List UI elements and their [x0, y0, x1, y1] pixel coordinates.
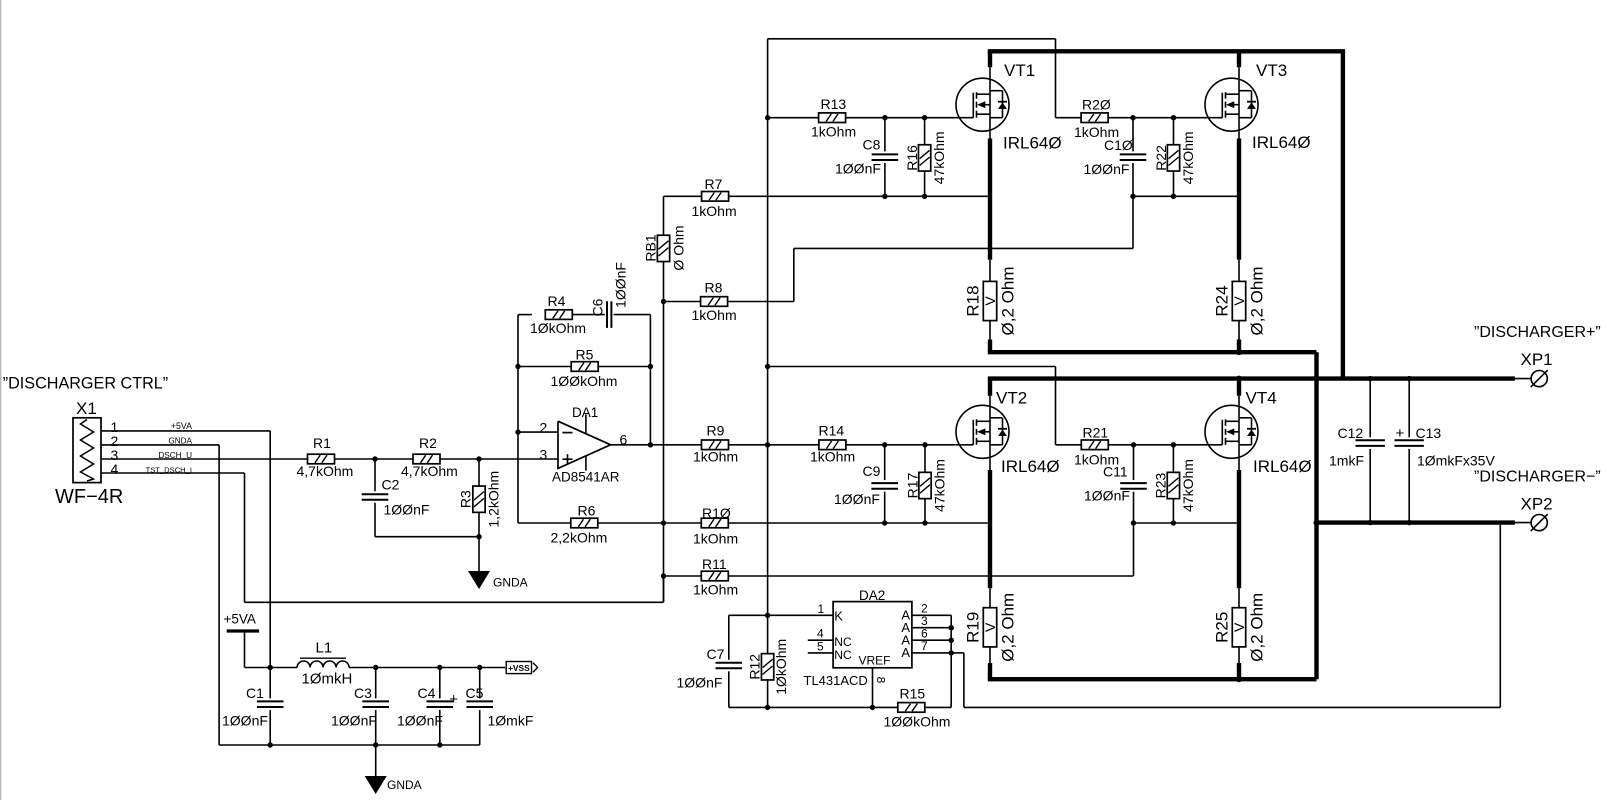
svg-text:2: 2	[540, 420, 548, 436]
svg-text:Ø,2 Ohm: Ø,2 Ohm	[999, 593, 1018, 662]
svg-text:1ØmkH: 1ØmkH	[302, 671, 353, 688]
svg-text:R3: R3	[458, 490, 474, 508]
svg-text:R25: R25	[1213, 612, 1232, 643]
svg-text:VT3: VT3	[1256, 61, 1287, 80]
svg-text:C2: C2	[382, 477, 400, 493]
svg-text:C8: C8	[863, 137, 881, 153]
svg-text:3: 3	[540, 447, 548, 463]
svg-text:R18: R18	[964, 285, 983, 316]
svg-text:R22: R22	[1153, 145, 1169, 171]
svg-text:1ØmkFx35V: 1ØmkFx35V	[1417, 453, 1495, 469]
svg-text:1ØØnF: 1ØØnF	[835, 161, 881, 177]
svg-text:R2Ø: R2Ø	[1082, 97, 1111, 113]
svg-text:XP2: XP2	[1521, 495, 1553, 514]
svg-text:R15: R15	[900, 686, 926, 702]
svg-text:R24: R24	[1213, 285, 1232, 316]
svg-text:1: 1	[818, 602, 825, 616]
svg-text:1kOhm: 1kOhm	[693, 449, 738, 465]
svg-text:4: 4	[111, 461, 119, 477]
svg-text:1kOhm: 1kOhm	[811, 124, 856, 140]
svg-text:1ØkOhm: 1ØkOhm	[773, 639, 789, 695]
svg-text:C5: C5	[466, 685, 484, 701]
svg-text:7: 7	[921, 639, 928, 653]
svg-text:”DISCHARGER−”: ”DISCHARGER−”	[1474, 469, 1601, 486]
svg-text:1ØØnF: 1ØØnF	[1084, 161, 1130, 177]
svg-text:1ØØnF: 1ØØnF	[331, 713, 377, 729]
svg-text:Ø Ohm: Ø Ohm	[671, 225, 687, 270]
svg-text:R11: R11	[702, 556, 727, 572]
svg-text:C1Ø: C1Ø	[1104, 137, 1133, 153]
svg-text:C4: C4	[418, 685, 436, 701]
svg-text:2,2kOhm: 2,2kOhm	[551, 530, 608, 546]
svg-text:47kOhm: 47kOhm	[1180, 131, 1196, 184]
svg-text:V: V	[1231, 622, 1247, 632]
svg-text:R2: R2	[419, 435, 437, 451]
svg-text:Ø,2 Ohm: Ø,2 Ohm	[1248, 593, 1267, 662]
svg-text:VT2: VT2	[996, 388, 1027, 407]
svg-text:R16: R16	[904, 145, 920, 171]
svg-text:1kOhm: 1kOhm	[693, 531, 738, 547]
svg-text:47kOhm: 47kOhm	[932, 459, 948, 512]
svg-text:L1: L1	[316, 639, 333, 656]
svg-text:R19: R19	[964, 612, 983, 643]
svg-text:C11: C11	[1103, 464, 1128, 480]
svg-text:1ØØnF: 1ØØnF	[222, 713, 268, 729]
svg-text:DA1: DA1	[572, 405, 598, 420]
svg-text:GNDA: GNDA	[387, 778, 422, 792]
svg-text:C7: C7	[707, 646, 725, 662]
svg-text:47kOhm: 47kOhm	[1180, 459, 1196, 512]
svg-text:1ØØnF: 1ØØnF	[834, 491, 880, 507]
svg-text:A: A	[901, 645, 910, 660]
svg-text:WF−4R: WF−4R	[55, 486, 123, 508]
svg-text:1kOhm: 1kOhm	[810, 449, 855, 465]
svg-text:+: +	[1396, 425, 1405, 442]
svg-text:”DISCHARGER+”: ”DISCHARGER+”	[1474, 324, 1601, 341]
svg-text:R8: R8	[705, 280, 723, 296]
svg-text:VT4: VT4	[1246, 388, 1277, 407]
svg-text:8: 8	[873, 676, 887, 683]
svg-text:R1Ø: R1Ø	[702, 505, 731, 521]
svg-text:IRL64Ø: IRL64Ø	[1001, 457, 1060, 476]
svg-text:IRL64Ø: IRL64Ø	[1003, 134, 1062, 153]
svg-text:+VSS: +VSS	[508, 663, 530, 673]
svg-text:R14: R14	[819, 423, 845, 439]
svg-text:1ØØkOhm: 1ØØkOhm	[884, 714, 951, 730]
svg-text:C12: C12	[1338, 425, 1364, 441]
svg-text:47kOhm: 47kOhm	[931, 131, 947, 184]
svg-text:+5VA: +5VA	[171, 421, 192, 431]
svg-text:V: V	[1231, 296, 1247, 306]
svg-text:GNDA: GNDA	[493, 576, 528, 590]
svg-text:IRL64Ø: IRL64Ø	[1252, 133, 1311, 152]
svg-text:+: +	[449, 691, 458, 708]
svg-text:1,2kOhm: 1,2kOhm	[486, 471, 502, 528]
svg-text:K: K	[834, 608, 843, 623]
svg-text:1ØØnF: 1ØØnF	[677, 675, 723, 691]
svg-text:C9: C9	[863, 463, 881, 479]
svg-text:XP1: XP1	[1521, 350, 1553, 369]
svg-text:+5VA: +5VA	[224, 612, 256, 627]
svg-text:C13: C13	[1416, 425, 1442, 441]
svg-text:DA2: DA2	[859, 588, 885, 603]
svg-text:1ØØkOhm: 1ØØkOhm	[551, 373, 618, 389]
svg-text:1ØmkF: 1ØmkF	[488, 713, 534, 729]
svg-text:1mkF: 1mkF	[1329, 453, 1364, 469]
svg-text:R1: R1	[313, 435, 331, 451]
svg-text:V: V	[982, 296, 998, 306]
svg-text:R17: R17	[904, 472, 920, 498]
svg-text:R23: R23	[1153, 472, 1169, 498]
svg-text:C3: C3	[354, 685, 372, 701]
svg-text:R4: R4	[548, 293, 566, 309]
svg-text:Ø,2 Ohm: Ø,2 Ohm	[999, 267, 1018, 336]
svg-text:1kOhm: 1kOhm	[693, 582, 738, 598]
svg-text:IRL64Ø: IRL64Ø	[1253, 457, 1312, 476]
svg-text:1ØØnF: 1ØØnF	[1084, 488, 1130, 504]
svg-text:AD8541AR: AD8541AR	[552, 470, 620, 485]
svg-text:”DISCHARGER CTRL”: ”DISCHARGER CTRL”	[3, 375, 168, 393]
svg-text:VT1: VT1	[1004, 61, 1035, 80]
svg-text:TL431ACD: TL431ACD	[804, 673, 868, 688]
svg-text:C1: C1	[246, 685, 264, 701]
svg-text:1kOhm: 1kOhm	[692, 307, 737, 323]
svg-text:Ø,2 Ohm: Ø,2 Ohm	[1248, 267, 1267, 336]
svg-text:C6: C6	[590, 298, 606, 316]
svg-text:R5: R5	[576, 347, 594, 363]
svg-text:R7: R7	[705, 176, 723, 192]
svg-text:R6: R6	[578, 503, 596, 519]
svg-text:5: 5	[817, 639, 824, 653]
svg-text:V: V	[982, 622, 998, 632]
svg-text:NC: NC	[834, 648, 852, 662]
svg-text:1ØØnF: 1ØØnF	[613, 262, 629, 308]
svg-text:1kOhm: 1kOhm	[692, 203, 737, 219]
svg-text:1ØkOhm: 1ØkOhm	[530, 320, 586, 336]
svg-text:1ØØnF: 1ØØnF	[384, 501, 430, 517]
svg-text:GNDA: GNDA	[168, 436, 192, 445]
svg-text:1ØØnF: 1ØØnF	[397, 713, 443, 729]
svg-text:NC: NC	[834, 635, 852, 649]
svg-text:4,7kOhm: 4,7kOhm	[297, 463, 354, 479]
svg-text:VREF: VREF	[859, 654, 891, 668]
svg-text:R13: R13	[821, 96, 847, 112]
svg-text:RB1: RB1	[643, 234, 659, 261]
svg-text:R21: R21	[1083, 425, 1109, 441]
svg-text:R12: R12	[747, 654, 763, 680]
svg-text:X1: X1	[76, 399, 97, 418]
svg-text:4,7kOhm: 4,7kOhm	[401, 463, 458, 479]
svg-text:R9: R9	[707, 423, 725, 439]
